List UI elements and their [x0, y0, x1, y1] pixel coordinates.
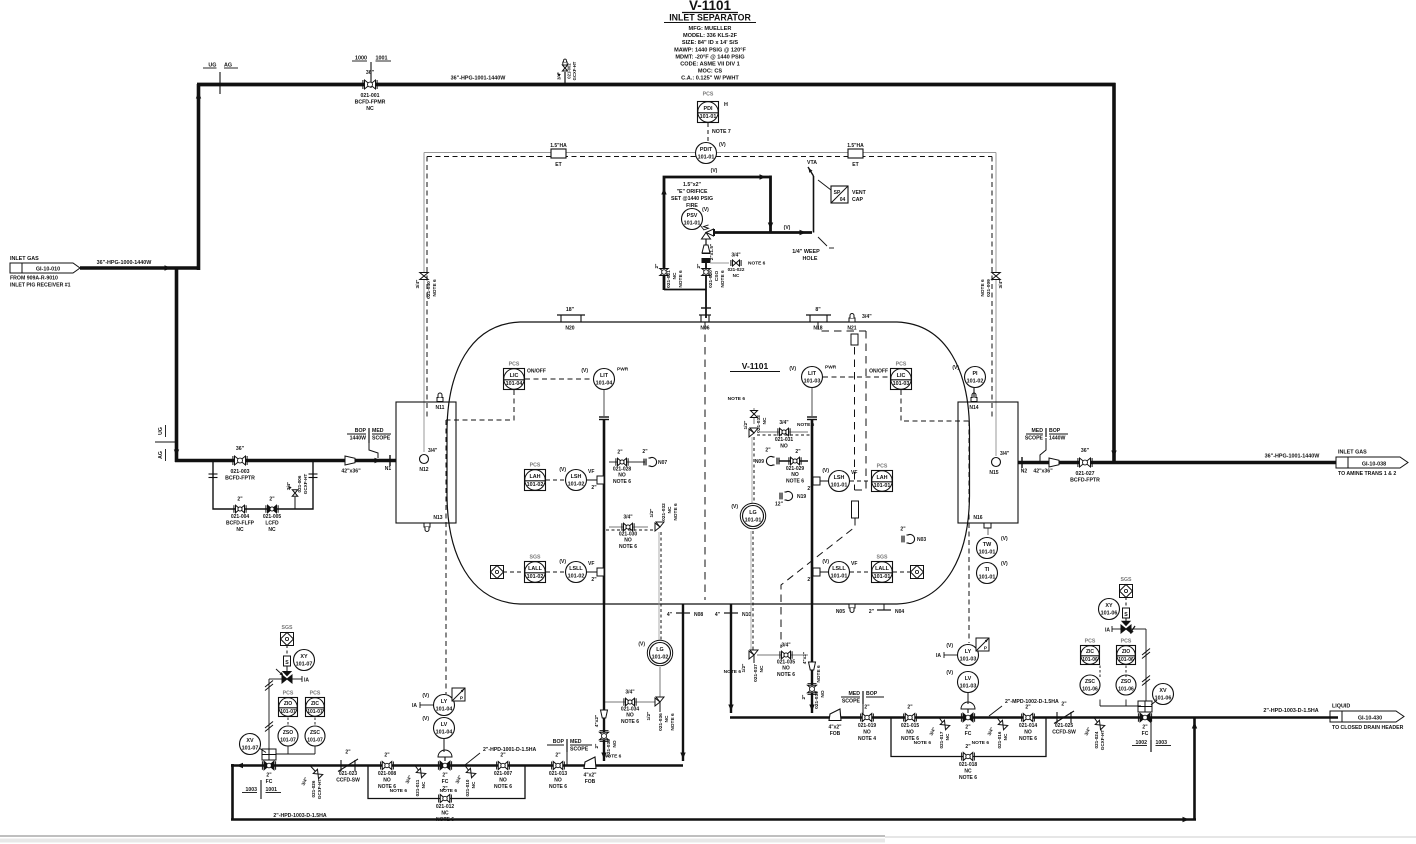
svg-text:101-07: 101-07: [307, 738, 323, 744]
inline seal ET left: [550, 143, 567, 168]
valve 021-033: [728, 396, 768, 433]
svg-text:101-01: 101-01: [684, 221, 701, 227]
svg-text:MED: MED: [372, 428, 384, 434]
svg-text:2": 2": [555, 753, 561, 759]
svg-text:PCS: PCS: [283, 691, 294, 697]
label weep hole: [792, 237, 834, 262]
svg-text:NOTE 6: NOTE 6: [797, 422, 815, 428]
svg-text:NOTE 6: NOTE 6: [777, 672, 795, 678]
svg-text:NO: NO: [782, 666, 790, 672]
svg-text:ET: ET: [852, 162, 858, 168]
svg-text:3/4": 3/4": [286, 482, 291, 491]
wire internal dash step: [781, 490, 866, 648]
svg-text:2": 2": [654, 264, 660, 269]
svg-text:PWR: PWR: [825, 365, 837, 371]
nozzle N08: [667, 612, 704, 618]
svg-text:LAH: LAH: [529, 474, 540, 480]
svg-text:S: S: [285, 660, 289, 666]
wire LG-02 tap upper: [659, 532, 661, 641]
svg-text:1.5"HA: 1.5"HA: [550, 143, 567, 149]
wire 36in vessel feed: [175, 458, 396, 463]
wire outlet gas line: [1018, 461, 1338, 465]
svg-text:GCXF-HT: GCXF-HT: [317, 779, 322, 800]
svg-text:INLET GAS: INLET GAS: [1338, 450, 1367, 456]
svg-text:101-03: 101-03: [960, 684, 977, 690]
instrument TW TI 101-01: [977, 523, 1009, 584]
svg-text:101-06: 101-06: [1082, 657, 1098, 663]
instrument LIC 101-03: [869, 362, 911, 390]
relief valve PSV: [702, 225, 715, 246]
svg-text:4"x2": 4"x2": [583, 773, 597, 779]
svg-text:2"x1.5": 2"x1.5": [709, 244, 715, 261]
svg-text:2": 2": [442, 773, 448, 779]
svg-text:101-07: 101-07: [280, 738, 296, 744]
svg-text:36": 36": [366, 70, 375, 76]
svg-text:021-023: 021-023: [339, 771, 358, 777]
nozzle N09: [755, 448, 779, 466]
svg-text:NC: NC: [471, 781, 476, 788]
wire N18 internal dashed: [818, 322, 866, 490]
svg-text:021-009: 021-009: [986, 279, 992, 297]
instrument XY 101-06: [1099, 599, 1120, 620]
svg-text:(V): (V): [1001, 536, 1008, 542]
label 2-MPD-1002: [989, 699, 1059, 716]
svg-text:021-021: 021-021: [666, 270, 672, 288]
instrument ZSO 101-07: [278, 726, 298, 746]
svg-text:CCFD-SW: CCFD-SW: [336, 778, 360, 784]
svg-text:1440W: 1440W: [1049, 436, 1066, 442]
vessel V-1101 shell: [447, 322, 970, 604]
svg-text:101-01: 101-01: [874, 574, 891, 580]
svg-text:TO AMINE TRANS 1 & 2: TO AMINE TRANS 1 & 2: [1338, 471, 1396, 477]
svg-text:PDIT: PDIT: [700, 147, 713, 153]
valve 021-025 breakaway: [1052, 702, 1076, 736]
svg-text:ZSO: ZSO: [1121, 679, 1131, 685]
svg-text:N19: N19: [797, 494, 806, 500]
svg-text:NOTE 6: NOTE 6: [613, 479, 631, 485]
svg-text:2": 2": [807, 577, 813, 583]
svg-text:(V): (V): [581, 368, 588, 374]
valve XV ball right: [1138, 701, 1152, 737]
svg-text:MED: MED: [570, 739, 582, 745]
svg-text:PCS: PCS: [310, 691, 321, 697]
svg-text:PI: PI: [972, 371, 978, 377]
svg-text:NOTE 6: NOTE 6: [728, 396, 746, 402]
wire left bypass: [368, 766, 525, 799]
svg-text:4": 4": [667, 612, 673, 618]
valve 021-013: [549, 753, 568, 791]
svg-text:NC: NC: [664, 715, 670, 722]
svg-text:ZSC: ZSC: [310, 730, 320, 736]
svg-text:021-024: 021-024: [1094, 731, 1099, 748]
svg-text:BCFD-FPTR: BCFD-FPTR: [225, 476, 255, 482]
svg-text:IA: IA: [304, 678, 309, 684]
svg-text:FC: FC: [965, 731, 972, 737]
standpipe flange right: [807, 417, 817, 420]
svg-text:N03: N03: [917, 537, 926, 543]
svg-text:V-1101: V-1101: [742, 361, 769, 371]
svg-text:(V): (V): [946, 670, 953, 676]
svg-text:PSV: PSV: [687, 213, 698, 219]
svg-text:NOTE 6: NOTE 6: [720, 270, 726, 288]
instrument LIC 101-04: [504, 362, 546, 390]
svg-text:CODE: ASME VII DIV 1: CODE: ASME VII DIV 1: [680, 62, 739, 68]
svg-text:MFG: MUELLER: MFG: MUELLER: [689, 26, 732, 32]
svg-text:101-02: 101-02: [967, 379, 984, 385]
svg-text:CAP: CAP: [852, 197, 863, 203]
svg-text:021-006: 021-006: [297, 475, 302, 492]
svg-text:2": 2": [591, 577, 597, 583]
svg-text:18": 18": [566, 307, 575, 313]
svg-text:SGS: SGS: [530, 555, 541, 561]
svg-text:ZIC: ZIC: [311, 701, 319, 707]
svg-text:NO: NO: [820, 690, 826, 697]
label (V) psv top: [711, 168, 718, 174]
svg-text:IA: IA: [936, 653, 941, 659]
label 2-HPD-1001: [465, 747, 536, 765]
svg-text:LIQUID: LIQUID: [1332, 704, 1350, 710]
instrument XV 101-06: [1153, 684, 1174, 705]
valve 021-024: [1084, 718, 1105, 751]
svg-text:LIT: LIT: [600, 373, 609, 379]
svg-text:101-06: 101-06: [1155, 696, 1172, 702]
svg-text:101-04: 101-04: [596, 381, 613, 387]
svg-text:2": 2": [500, 753, 506, 759]
wire LT-LIC signal: [823, 376, 890, 378]
svg-text:S: S: [1124, 612, 1128, 618]
instrument PDIT 101-01: [696, 142, 727, 164]
svg-text:NOTE 6: NOTE 6: [786, 479, 804, 485]
valve 021-021: [654, 262, 684, 288]
svg-text:LSLL: LSLL: [832, 566, 846, 572]
instrument LV 101-04: [422, 716, 454, 752]
svg-text:3/4": 3/4": [731, 253, 741, 259]
svg-text:021-005: 021-005: [263, 514, 282, 520]
svg-text:(V): (V): [422, 693, 429, 699]
svg-text:ON/OFF: ON/OFF: [527, 369, 546, 375]
svg-text:NOTE 6: NOTE 6: [432, 279, 438, 297]
svg-text:101-01: 101-01: [831, 574, 848, 580]
wire N06 internal dashed: [704, 322, 706, 600]
instrument LY 101-03: [936, 638, 989, 666]
svg-text:NO: NO: [499, 778, 507, 784]
svg-text:(V): (V): [1001, 561, 1008, 567]
svg-text:101-04: 101-04: [436, 707, 453, 713]
svg-text:FOB: FOB: [585, 779, 596, 785]
svg-text:(V): (V): [789, 366, 796, 372]
reducer 42x36 outlet: [1033, 458, 1059, 475]
reducer 42x36 inlet: [341, 456, 361, 475]
svg-text:NC: NC: [759, 665, 765, 672]
wire LIC-LT signal: [525, 378, 593, 380]
label 36-HPG-1001-1440W outlet: [1265, 454, 1321, 460]
svg-text:LG: LG: [656, 647, 664, 653]
wire standpipe drain right: [809, 604, 814, 713]
svg-text:3/4": 3/4": [987, 726, 995, 736]
svg-text:LV: LV: [965, 676, 972, 682]
svg-text:(V): (V): [422, 716, 429, 722]
svg-text:NC: NC: [964, 769, 972, 775]
svg-text:3/4": 3/4": [1000, 451, 1010, 457]
svg-text:2": 2": [900, 527, 906, 533]
vent stack: [807, 160, 817, 233]
svg-text:3/4": 3/4": [405, 774, 413, 784]
scope break left drain: [547, 739, 592, 765]
svg-text:2": 2": [907, 705, 913, 711]
nozzle N07: [642, 449, 667, 467]
svg-text:(V): (V): [638, 642, 645, 648]
reducer 4x2 right stand: [802, 652, 822, 683]
svg-text:8": 8": [815, 307, 821, 313]
svg-text:NOTE 6: NOTE 6: [1019, 736, 1037, 742]
valve 021-037 angle: [724, 650, 765, 682]
instrument XY 101-07: [294, 650, 315, 671]
wire psv base: [664, 283, 711, 318]
svg-text:N20: N20: [565, 326, 574, 332]
valve 3-way XV-07: [282, 672, 309, 684]
instrument SGS diamond XV-06: [1120, 577, 1133, 598]
svg-text:1.5"x2": 1.5"x2": [683, 182, 701, 188]
svg-text:101-07: 101-07: [242, 746, 259, 752]
svg-text:BCFD-FPTR: BCFD-FPTR: [1070, 478, 1100, 484]
svg-text:N14: N14: [969, 405, 978, 411]
svg-text:VF: VF: [851, 470, 857, 476]
wire bottom drain run: [231, 817, 1196, 822]
svg-text:101-06: 101-06: [1101, 611, 1118, 617]
svg-text:NC: NC: [268, 527, 276, 533]
svg-text:N16: N16: [973, 515, 982, 521]
svg-text:4": 4": [715, 612, 721, 618]
angle valve LG-01 top: [749, 428, 758, 437]
svg-text:AG: AG: [158, 451, 164, 459]
svg-text:SGS: SGS: [877, 555, 888, 561]
valve LV 101-03 body: [961, 702, 975, 737]
svg-text:BOP: BOP: [866, 691, 878, 697]
nozzle N04: [869, 604, 905, 615]
wire right tap drop: [992, 153, 996, 457]
instrument ZSO 101-06: [1116, 675, 1136, 695]
instrument LT 101-04: [581, 367, 628, 417]
svg-text:(V): (V): [702, 207, 709, 213]
wire LG-01 lower: [751, 531, 753, 651]
svg-text:2": 2": [617, 450, 623, 456]
instrument PSV 101-01: [682, 207, 710, 230]
interlock diamond left: [491, 566, 504, 579]
title V-1101: [682, 0, 738, 13]
standpipe cap N21: [851, 334, 858, 490]
svg-text:021-032: 021-032: [661, 503, 667, 521]
svg-text:NOTE 6: NOTE 6: [604, 754, 622, 760]
wire top bypass drop: [1111, 83, 1116, 461]
wire 36in top bypass line: [197, 83, 1116, 87]
wire PDT signal dashed: [427, 156, 992, 158]
vent cap SP/04: [818, 180, 867, 203]
svg-text:VF: VF: [588, 469, 594, 475]
svg-text:VF: VF: [588, 561, 594, 567]
svg-text:NC: NC: [441, 811, 449, 817]
wire PSV outlet: [712, 230, 812, 235]
label 2-HPD-1003 right: [1263, 708, 1318, 714]
valve 021-030: [606, 515, 656, 551]
svg-text:LG: LG: [749, 510, 757, 516]
svg-text:101-03: 101-03: [893, 381, 910, 387]
svg-text:PCS: PCS: [1085, 639, 1096, 645]
valve 021-027: [1070, 448, 1100, 484]
sheet edge: [0, 836, 1416, 843]
instrument LSH 101-02: [559, 467, 604, 491]
label PSV setting: [671, 182, 713, 209]
wire N10 drop: [728, 604, 733, 713]
valve 021-031: [757, 420, 815, 450]
inline seal ET right: [847, 143, 864, 168]
svg-text:CCFD-SW: CCFD-SW: [1052, 730, 1076, 736]
svg-text:2": 2": [864, 705, 870, 711]
svg-text:LSLL: LSLL: [569, 566, 583, 572]
svg-text:V-1101: V-1101: [689, 0, 732, 13]
reducer 4x2 left: [594, 710, 608, 727]
instrument ZIC 101-07: [306, 691, 325, 717]
svg-text:ZIO: ZIO: [284, 701, 292, 707]
svg-text:1/2": 1/2": [743, 421, 749, 430]
svg-text:NOTE 6: NOTE 6: [816, 665, 822, 683]
wire LAH-LSH signal: [546, 479, 565, 481]
svg-text:101-04: 101-04: [436, 730, 453, 736]
svg-text:C.A.: 0.125" W/ PWHT: C.A.: 0.125" W/ PWHT: [681, 76, 739, 82]
svg-text:101-02: 101-02: [527, 482, 544, 488]
svg-text:36"-HPG-1001-1440W: 36"-HPG-1001-1440W: [451, 76, 507, 82]
node inlet tee: [165, 265, 177, 462]
blind flange: [702, 258, 711, 263]
svg-text:(V): (V): [784, 225, 791, 231]
wire right bypass: [891, 718, 1046, 757]
svg-text:NO: NO: [906, 730, 914, 736]
instrument PDI 101-01: [698, 92, 729, 123]
svg-text:2": 2": [795, 449, 801, 455]
svg-text:GI-10-038: GI-10-038: [1362, 462, 1386, 468]
valve 021-011: [390, 766, 426, 797]
svg-text:XY: XY: [1105, 603, 1113, 609]
svg-text:3/4": 3/4": [998, 280, 1004, 289]
wire SGS-06 drop: [1125, 597, 1127, 607]
svg-text:BCFD-FPMR: BCFD-FPMR: [355, 100, 386, 106]
svg-text:SIZE: 84" ID x 14' S/S: SIZE: 84" ID x 14' S/S: [682, 40, 738, 46]
svg-text:NO: NO: [1024, 730, 1032, 736]
svg-text:021-016: 021-016: [997, 731, 1002, 748]
svg-text:021-002: 021-002: [567, 63, 572, 79]
wire LALL-01 signals: [850, 571, 910, 573]
wire N08 drop: [680, 604, 685, 761]
svg-text:NOTE 6: NOTE 6: [390, 788, 408, 794]
svg-text:NOTE 6: NOTE 6: [670, 713, 676, 731]
svg-text:3/4": 3/4": [862, 314, 872, 320]
wire PSV drop: [768, 176, 773, 233]
svg-text:021-022: 021-022: [728, 267, 745, 272]
instrument LALL 101-01: [872, 555, 893, 583]
valve 021-003: [225, 446, 255, 482]
svg-text:INLET GAS: INLET GAS: [10, 256, 39, 262]
svg-text:021-007: 021-007: [494, 771, 513, 777]
svg-text:3/4": 3/4": [623, 515, 633, 521]
svg-text:2": 2": [807, 486, 813, 492]
instrument LAH 101-01: [872, 464, 893, 492]
outlet compartment box: [958, 402, 1018, 523]
marker 1002/1003: [1132, 718, 1171, 752]
svg-text:NOTE 6: NOTE 6: [494, 784, 512, 790]
svg-text:H: H: [724, 102, 728, 108]
svg-text:GI-10-430: GI-10-430: [1358, 716, 1382, 722]
wire inlet riser: [196, 84, 201, 270]
svg-text:NOTE 6: NOTE 6: [724, 669, 742, 675]
svg-text:101-02: 101-02: [652, 655, 669, 661]
svg-text:TI: TI: [985, 567, 990, 573]
svg-text:2": 2": [345, 750, 351, 756]
svg-text:XY: XY: [300, 654, 308, 660]
instrument PI 101-02: [952, 365, 985, 397]
svg-text:NC: NC: [236, 527, 244, 533]
valve 021-012: [436, 786, 455, 823]
instrument ZIO 101-06: [1117, 639, 1136, 665]
svg-text:GI-10-010: GI-10-010: [36, 267, 60, 273]
offpage connector GI-10-010: [10, 256, 80, 289]
svg-text:SCOPE: SCOPE: [1025, 436, 1044, 442]
svg-text:GCXF-HT: GCXF-HT: [572, 61, 577, 80]
svg-text:NO: NO: [618, 473, 626, 479]
svg-text:BOP: BOP: [1049, 428, 1061, 434]
svg-text:4"x2": 4"x2": [594, 715, 600, 728]
valve 021-014: [1019, 705, 1038, 743]
svg-text:NC: NC: [945, 733, 950, 740]
instrument LSLL 101-01: [807, 559, 857, 583]
svg-text:LCFD: LCFD: [265, 521, 279, 527]
svg-text:N15: N15: [989, 470, 998, 476]
svg-text:TO CLOSED DRAIN HEADER: TO CLOSED DRAIN HEADER: [1332, 725, 1404, 731]
wire LG-02 drain line: [604, 701, 656, 703]
interlock diamond right: [911, 566, 924, 579]
svg-text:(V): (V): [946, 643, 953, 649]
solenoid XV-06: [1123, 608, 1130, 624]
instrument ZSC 101-06: [1080, 675, 1100, 695]
svg-text:2": 2": [765, 448, 771, 454]
svg-text:FC: FC: [266, 779, 273, 785]
svg-text:101-03: 101-03: [960, 657, 977, 663]
marker 1000/1001: [352, 56, 391, 89]
wire standpipe drain left: [601, 604, 606, 761]
svg-text:3/4": 3/4": [625, 690, 635, 696]
svg-text:N05: N05: [836, 609, 845, 615]
svg-text:MED: MED: [848, 691, 860, 697]
svg-text:NOTE 7: NOTE 7: [712, 129, 731, 135]
svg-text:N04: N04: [895, 609, 904, 615]
svg-text:MDMT: -20°F @ 1440 PSIG: MDMT: -20°F @ 1440 PSIG: [675, 54, 744, 60]
svg-text:N1: N1: [385, 466, 392, 472]
nozzle N14: [969, 393, 978, 411]
valve 021-028: [609, 450, 645, 486]
svg-text:2": 2": [594, 744, 600, 749]
svg-text:101-07: 101-07: [280, 709, 296, 715]
svg-text:HOLE: HOLE: [803, 256, 818, 262]
svg-text:SP: SP: [834, 190, 841, 196]
svg-text:NOTE 6: NOTE 6: [914, 740, 932, 746]
svg-text:101-01: 101-01: [874, 483, 891, 489]
svg-text:TW: TW: [983, 542, 992, 548]
svg-text:N08: N08: [694, 612, 703, 618]
instrument ZSC 101-07: [305, 726, 325, 746]
instrument LALL 101-02: [525, 555, 546, 583]
svg-text:(V): (V): [559, 467, 566, 473]
svg-text:FC: FC: [1142, 731, 1149, 737]
svg-text:1/2": 1/2": [646, 712, 652, 721]
svg-text:BOP: BOP: [553, 739, 565, 745]
